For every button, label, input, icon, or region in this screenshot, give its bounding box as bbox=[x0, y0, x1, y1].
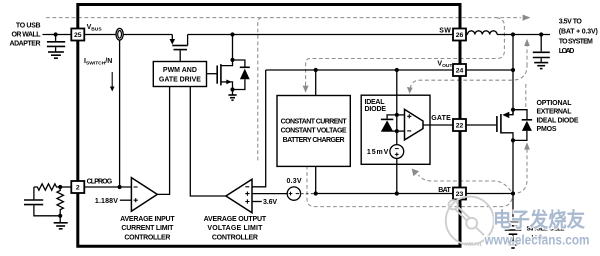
wire VOUT down into ideal diode block bbox=[396, 70, 398, 115]
transistor Q1 (external ideal diode PMOS) bbox=[497, 110, 513, 141]
svg-text:CONTROLLER: CONTROLLER bbox=[124, 234, 170, 241]
svg-text:CONTROLLER: CONTROLLER bbox=[212, 234, 258, 241]
node CLPROG/ISWITCH junction bbox=[118, 185, 122, 189]
svg-text:CLPROG: CLPROG bbox=[87, 179, 113, 186]
svg-text:1.188V: 1.188V bbox=[95, 198, 118, 205]
svg-text:CONSTANT CURRENT: CONSTANT CURRENT bbox=[281, 118, 348, 125]
node B (RC bottom) bbox=[58, 214, 62, 218]
op-amp U2 average output voltage limit bbox=[226, 179, 252, 213]
IC boundary bbox=[78, 5, 460, 247]
op-amp U1 average input current limit bbox=[131, 178, 157, 212]
svg-text:26: 26 bbox=[456, 32, 464, 39]
svg-text:OR WALL: OR WALL bbox=[12, 31, 42, 38]
svg-text:GATE DRIVE: GATE DRIVE bbox=[159, 77, 201, 84]
svg-text:(BAT + 0.3V): (BAT + 0.3V) bbox=[559, 29, 598, 36]
wire external rail vertical bbox=[512, 35, 514, 115]
wire CLPROG to amp bbox=[84, 186, 131, 188]
BAT rail bbox=[316, 193, 453, 195]
node M2 source bbox=[230, 87, 234, 91]
svg-text:PWM AND: PWM AND bbox=[163, 67, 197, 74]
svg-text:15mV: 15mV bbox=[367, 149, 389, 156]
svg-text:CONSTANT VOLTAGE: CONSTANT VOLTAGE bbox=[281, 128, 347, 135]
dashed current path D1 (input to load) bbox=[46, 15, 531, 21]
voltage source 15mV bbox=[367, 145, 404, 159]
watermark logo (elecfans) bbox=[446, 197, 494, 245]
arrow ISWITCH direction bbox=[110, 72, 115, 92]
node SW top junction bbox=[230, 32, 234, 36]
wire U2 output to PWM bbox=[190, 87, 226, 197]
pin 2 CLPROG bbox=[71, 181, 84, 193]
svg-text:AVERAGE INPUT: AVERAGE INPUT bbox=[120, 216, 175, 223]
watermark text bbox=[484, 208, 590, 248]
wire 15mV to BAT rail bbox=[396, 158, 398, 193]
dashed path D6 (battery to ideal diodes) bbox=[412, 142, 530, 193]
svg-text:3.5V TO: 3.5V TO bbox=[559, 18, 583, 25]
wire VBUS rail bbox=[84, 34, 172, 36]
capacitor CIN bbox=[47, 35, 65, 52]
node load 1 bbox=[511, 32, 515, 36]
node A (CLPROG RC) bbox=[58, 185, 62, 189]
pin 23 BAT bbox=[453, 188, 466, 200]
svg-text:22: 22 bbox=[456, 123, 464, 130]
diode D3 (external PMOS body diode) bbox=[513, 110, 532, 141]
svg-text:电子发烧友: 电子发烧友 bbox=[493, 208, 585, 232]
svg-text:ADAPTER: ADAPTER bbox=[10, 40, 41, 47]
node ideal diode top bbox=[395, 113, 399, 117]
svg-text:EXTERNAL: EXTERNAL bbox=[537, 109, 573, 116]
op-amp U3 (ideal diode amp) bbox=[397, 109, 423, 139]
node BAT/15mV bbox=[395, 191, 399, 195]
inductor L1 bbox=[466, 31, 550, 35]
wire U3 output to GATE pin bbox=[423, 124, 453, 126]
svg-text:IDEAL: IDEAL bbox=[365, 99, 386, 106]
svg-text:www.elecfans.com: www.elecfans.com bbox=[484, 233, 590, 248]
battery BT1 bbox=[505, 194, 522, 242]
wire M1 drain to node bbox=[188, 34, 453, 36]
node load 2 bbox=[539, 32, 543, 36]
node M2 drain bbox=[230, 58, 234, 62]
wire U2 inverting input to VOUT rail bbox=[252, 70, 266, 187]
node VOUT/ideal diode bbox=[395, 68, 399, 72]
svg-text:IDEAL DIODE: IDEAL DIODE bbox=[537, 117, 579, 124]
ground (battery) bbox=[506, 242, 521, 249]
svg-text:24: 24 bbox=[456, 68, 464, 75]
node dot input bbox=[54, 32, 58, 36]
svg-text:GATE: GATE bbox=[431, 115, 451, 122]
voltage source 0.3V bbox=[287, 178, 302, 200]
svg-text:25: 25 bbox=[74, 32, 82, 39]
transistor M1 (top PMOS switch) bbox=[170, 35, 188, 62]
svg-text:TO USB: TO USB bbox=[16, 23, 41, 30]
svg-text:SW: SW bbox=[439, 28, 451, 35]
ground (COUT) bbox=[534, 63, 548, 69]
ground (M2 source) bbox=[228, 90, 236, 101]
node BAT/battery bbox=[511, 191, 515, 195]
ground (CLPROG RC) bbox=[54, 216, 68, 229]
pin 24 VOUT bbox=[453, 64, 466, 76]
svg-text:TO SYSTEM: TO SYSTEM bbox=[559, 38, 593, 45]
wire VOUT pin to external node bbox=[466, 69, 513, 71]
capacitor C1 bbox=[24, 187, 60, 216]
wire between nodes bbox=[396, 115, 398, 145]
VOUT rail bbox=[266, 69, 453, 71]
wire GATE pin to external PMOS bbox=[466, 124, 496, 126]
dashed path D5 (ideal diode to load) bbox=[407, 39, 530, 108]
dashed branch D2 bbox=[258, 18, 262, 161]
svg-text:2: 2 bbox=[76, 185, 80, 192]
wire charger to BAT rail bbox=[315, 166, 317, 193]
dashed path D3 (to battery charger) bbox=[303, 18, 505, 93]
dashed path D4 (charger to battery) bbox=[307, 147, 512, 207]
node ext PMOS bottom bbox=[511, 138, 515, 142]
wire U1 output to PWM bbox=[157, 87, 169, 195]
wire adapter to VBUS pin bbox=[43, 34, 72, 36]
transistor M2 (bottom NMOS) bbox=[207, 35, 233, 90]
PWM and gate drive block bbox=[153, 62, 206, 87]
pin 25 VBUS bbox=[71, 29, 84, 41]
wire VOUT to charger bbox=[315, 70, 317, 96]
battery charger block bbox=[277, 96, 350, 167]
svg-text:AVERAGE OUTPUT: AVERAGE OUTPUT bbox=[204, 216, 267, 223]
3.6V reference bbox=[252, 201, 262, 203]
diode D2 (internal ideal diode) bbox=[381, 115, 397, 131]
resistor R2 (vertical) bbox=[57, 187, 63, 216]
wire ext PMOS to BAT rail bbox=[512, 140, 514, 193]
svg-text:3.6V: 3.6V bbox=[263, 199, 277, 206]
svg-text:OPTIONAL: OPTIONAL bbox=[537, 100, 573, 107]
node BAT/charger bbox=[314, 191, 318, 195]
current sense element ISWITCH monitor bbox=[116, 28, 123, 40]
wire pin2 to RC network bbox=[60, 186, 72, 188]
node ext VOUT bbox=[511, 68, 515, 72]
capacitor COUT bbox=[533, 35, 550, 63]
svg-text:VOLTAGE LIMIT: VOLTAGE LIMIT bbox=[207, 225, 263, 232]
node VOUT/charger bbox=[314, 68, 318, 72]
ideal diode block bbox=[361, 95, 430, 164]
ground (input cap) bbox=[48, 52, 64, 58]
svg-text:PMOS: PMOS bbox=[537, 126, 557, 133]
wire sensor down to CLPROG node bbox=[119, 40, 121, 187]
diode D1 (catch diode across M2) bbox=[233, 60, 250, 90]
svg-text:0.3V: 0.3V bbox=[287, 178, 302, 185]
node ext PMOS top bbox=[511, 108, 515, 112]
pin 26 SW bbox=[453, 29, 466, 41]
node ideal diode bottom bbox=[395, 129, 399, 133]
svg-text:CURRENT LIMIT: CURRENT LIMIT bbox=[121, 225, 174, 232]
svg-text:DIODE: DIODE bbox=[365, 106, 387, 113]
dashed wire 0.3V to BAT rail bbox=[301, 193, 315, 195]
pin 22 GATE bbox=[453, 119, 466, 131]
wire U2 + input to 0.3V source bbox=[252, 193, 287, 195]
resistor R1 (horizontal) bbox=[34, 184, 60, 190]
svg-text:BATTERY CHARGER: BATTERY CHARGER bbox=[283, 137, 345, 144]
svg-text:LOAD: LOAD bbox=[559, 48, 575, 55]
